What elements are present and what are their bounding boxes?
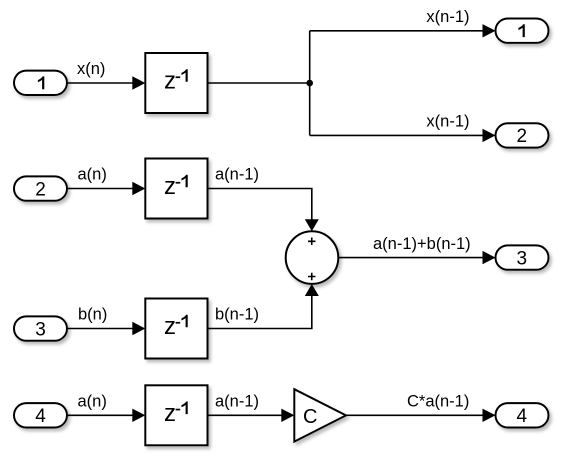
svg-text:x(n): x(n)	[77, 60, 105, 78]
svg-text:2: 2	[516, 126, 527, 147]
svg-text:a(n-1): a(n-1)	[215, 393, 259, 411]
svg-text:4: 4	[35, 406, 46, 427]
svg-text:a(n): a(n)	[78, 166, 107, 184]
svg-text:x(n-1): x(n-1)	[426, 8, 469, 26]
svg-text:a(n-1): a(n-1)	[215, 166, 259, 184]
svg-text:b(n): b(n)	[78, 306, 107, 324]
svg-text:z: z	[164, 313, 176, 340]
svg-text:z: z	[164, 400, 176, 427]
svg-text:a(n-1)+b(n-1): a(n-1)+b(n-1)	[373, 235, 471, 253]
svg-text:z: z	[164, 173, 176, 200]
svg-text:3: 3	[35, 319, 46, 340]
svg-text:2: 2	[35, 179, 46, 200]
svg-text:b(n-1): b(n-1)	[215, 306, 259, 324]
svg-text:C*a(n-1): C*a(n-1)	[407, 393, 469, 411]
svg-text:a(n): a(n)	[78, 393, 107, 411]
svg-text:3: 3	[516, 248, 527, 269]
svg-text:z: z	[164, 68, 176, 95]
svg-text:4: 4	[516, 406, 527, 427]
svg-text:C: C	[303, 406, 317, 428]
svg-text:x(n-1): x(n-1)	[426, 113, 469, 131]
